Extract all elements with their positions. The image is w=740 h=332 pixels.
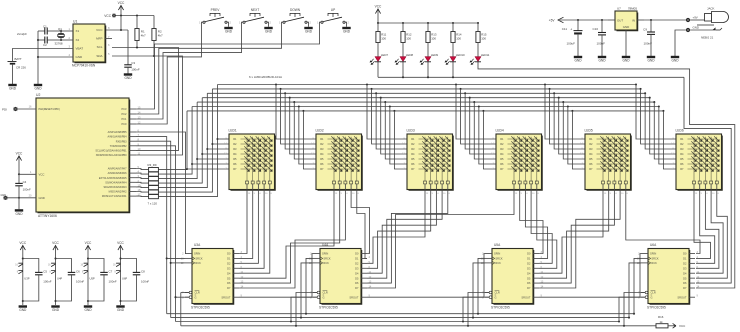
svg-text:VCC: VCC [104, 14, 111, 18]
svg-text:C1: C1 [43, 25, 47, 29]
LED matrix LED3 box [407, 134, 453, 190]
bus row R7 [187, 110, 663, 112]
wire SRCK tap U4A [305, 313, 307, 315]
svg-text:D3: D3 [527, 266, 531, 270]
+5V wire to regulator output [560, 19, 608, 21]
svg-text:100: 100 [381, 37, 386, 41]
svg-text:D0: D0 [683, 252, 687, 256]
svg-text:R3: R3 [320, 147, 324, 151]
wire R5 to LED1 pin [196, 158, 198, 160]
svg-text:D5: D5 [227, 276, 231, 280]
LED10 [452, 43, 454, 57]
wire row R6 tap to LED5 [567, 105, 569, 107]
svg-text:LED10: LED10 [456, 53, 465, 57]
regulator input wire [644, 19, 688, 21]
svg-text:R2: R2 [589, 142, 593, 146]
svg-text:OUT: OUT [617, 18, 623, 22]
svg-text:X1: X1 [76, 29, 80, 33]
shift register U5A box [492, 249, 533, 304]
IC U1 MCP79410 box [73, 24, 105, 62]
wire row R2 tap to LED2 [280, 88, 282, 90]
svg-text:R2: R2 [233, 142, 237, 146]
svg-text:R6: R6 [680, 162, 684, 166]
svg-text:LED3: LED3 [407, 129, 415, 133]
svg-text:D2: D2 [355, 261, 359, 265]
wire row R5 tap to LED6 [653, 101, 655, 103]
wire row R1 tap to LED2 [275, 83, 277, 85]
wire PA pin to RN [136, 191, 149, 194]
svg-text:R3_R9: R3_R9 [148, 163, 157, 167]
svg-text:IN: IN [632, 18, 635, 22]
svg-text:GND: GND [647, 59, 655, 63]
svg-text:SROUT: SROUT [221, 295, 230, 299]
svg-text:GND: GND [117, 308, 125, 312]
ground for U5P [84, 307, 92, 313]
ground for U6P [116, 307, 124, 313]
U2 pin PB4 [129, 136, 136, 138]
svg-text:U3A: U3A [194, 243, 201, 247]
wire SRCK tap U5A [477, 313, 479, 315]
svg-text:JACK: JACK [707, 7, 714, 11]
svg-text:NEB/J 21: NEB/J 21 [701, 36, 714, 40]
svg-text:VCC: VCC [96, 28, 103, 32]
pad +9V [686, 18, 690, 22]
U2 left pin UPDI [18, 108, 36, 110]
wire LED cathode [452, 62, 454, 78]
svg-text:STPIC6C595: STPIC6C595 [491, 305, 510, 309]
svg-text:STPIC6C595: STPIC6C595 [191, 305, 210, 309]
resistor R2 4k7 [153, 16, 155, 29]
push button UP [317, 8, 349, 25]
VCC for U5P [85, 241, 92, 253]
LED matrix LED5 box [585, 134, 631, 190]
capacitor C6 100nF [54, 257, 56, 259]
wire PA pin to RN [136, 169, 149, 170]
svg-text:GND: GND [124, 76, 132, 80]
svg-text:TXD/WO2/PB2: TXD/WO2/PB2 [110, 145, 127, 148]
resistor R13 100 [427, 22, 429, 24]
svg-text:D3: D3 [355, 266, 359, 270]
svg-text:2x12pF: 2x12pF [17, 32, 27, 36]
svg-text:R1: R1 [500, 137, 504, 141]
svg-text:R5: R5 [680, 157, 684, 161]
bus row R6 [192, 106, 659, 108]
VCC for U4P [52, 241, 59, 253]
svg-text:D7: D7 [527, 286, 531, 290]
svg-text:SRCK: SRCK [495, 257, 502, 261]
svg-text:VCC: VCC [375, 5, 382, 9]
svg-text:D4: D4 [355, 271, 359, 275]
net LED11 cathode to U6A D7 [478, 62, 735, 288]
svg-text:MFP: MFP [96, 37, 102, 41]
svg-text:VCC: VCC [19, 241, 26, 245]
push button DOWN [279, 8, 311, 25]
net SCL from U1 to MCU PB1 [112, 48, 179, 151]
svg-text:G: G [323, 295, 325, 299]
svg-text:100nF: 100nF [109, 279, 117, 283]
capacitor C11 100uF [577, 20, 579, 31]
wire row R4 tap to LED6 [649, 97, 651, 99]
svg-text:D0: D0 [527, 252, 531, 256]
net row R5 riser [158, 102, 197, 179]
svg-text:100nF: 100nF [23, 187, 31, 191]
svg-text:D5: D5 [355, 276, 359, 280]
svg-text:R7: R7 [500, 167, 504, 171]
svg-text:100: 100 [481, 37, 486, 41]
resistor network element 6 [149, 190, 159, 194]
wire row R3 tap to LED6 [644, 92, 646, 94]
wire R7 to LED1 pin [186, 168, 188, 170]
VCC symbol for indicator LEDs [375, 5, 382, 17]
svg-text:D3: D3 [227, 266, 231, 270]
svg-text:SS/WO4/AIN4/PA4: SS/WO4/AIN4/PA4 [105, 181, 127, 184]
wire PA pin to RN [136, 177, 149, 180]
bus /G bottom [176, 321, 620, 323]
U2 pin PB5 [129, 131, 136, 133]
+5V supply arrow [558, 17, 564, 23]
svg-text:D7: D7 [227, 286, 231, 290]
net row R7 riser [158, 111, 187, 170]
VCC for U6P [117, 241, 124, 253]
ground for U2 [15, 210, 23, 216]
VCC pad [112, 14, 116, 18]
wire row R5 tap to LED4 [473, 101, 475, 103]
ground for C11 [574, 57, 582, 63]
wire R3 to LED1 pin [206, 148, 208, 150]
svg-text:R3: R3 [589, 147, 593, 151]
net PREV to MCU [136, 22, 203, 124]
svg-text:R7: R7 [589, 167, 593, 171]
svg-text:R6: R6 [589, 162, 593, 166]
svg-text:R5: R5 [320, 157, 324, 161]
wire row R5 tap to LED5 [562, 101, 564, 103]
wires U5A outputs to LED4 columns [520, 198, 543, 254]
net SROUT U5A to SRIN U6A [539, 254, 641, 298]
svg-text:SDA: SDA [96, 54, 102, 58]
VCC arrow right for R16 [673, 323, 676, 328]
svg-text:CLR: CLR [323, 291, 328, 295]
LED7 [377, 43, 379, 57]
svg-text:7 x 120: 7 x 120 [148, 201, 158, 205]
svg-text:R4: R4 [233, 152, 237, 156]
ground for UP [342, 28, 350, 34]
svg-text:R4: R4 [320, 152, 324, 156]
svg-text:R3: R3 [680, 147, 684, 151]
net row R4 riser [158, 98, 202, 183]
svg-text:GND: GND [225, 30, 233, 34]
svg-text:ATTINY1606: ATTINY1606 [38, 214, 57, 218]
wire /CLR tap U5A [467, 325, 469, 327]
wire row R2 tap to LED3 [371, 88, 373, 90]
wires U4A outputs to LED3 columns [367, 198, 425, 264]
net DOWN to MCU [136, 22, 283, 114]
U2 VCC pin and C4 [16, 152, 23, 164]
svg-text:R1: R1 [320, 137, 324, 141]
ground for U4P [51, 307, 59, 313]
LED matrix LED4 box [496, 134, 542, 190]
resistor network element 1 [149, 168, 159, 172]
svg-text:GND: GND [343, 30, 351, 34]
svg-text:CLR: CLR [651, 291, 656, 295]
svg-text:R5: R5 [589, 157, 593, 161]
svg-text:PREV: PREV [211, 8, 221, 12]
svg-text:GND: GND [1, 194, 7, 197]
svg-text:C10: C10 [592, 27, 598, 31]
svg-text:C7: C7 [109, 270, 113, 274]
svg-text:GND: GND [39, 196, 45, 200]
svg-text:R4: R4 [680, 152, 684, 156]
wires U5A outputs to LED5 columns [539, 198, 603, 274]
svg-text:D6: D6 [355, 281, 359, 285]
svg-text:G: G [651, 295, 653, 299]
wire row R7 tap to LED3 [393, 110, 395, 112]
wire LED cathode [402, 62, 404, 78]
bus row R4 [202, 97, 649, 99]
wire row R7 tap to LED5 [571, 110, 573, 112]
svg-text:RCK: RCK [495, 261, 501, 265]
power pins U3P [15, 263, 29, 280]
svg-text:SRCK: SRCK [651, 257, 658, 261]
wire PA pin to RN [136, 195, 149, 198]
svg-text:STPIC6C595: STPIC6C595 [319, 305, 338, 309]
svg-text:SDA/WO3/AIN3/PA3: SDA/WO3/AIN3/PA3 [103, 186, 127, 189]
push button PREV [199, 8, 231, 25]
svg-text:RCK: RCK [195, 261, 201, 265]
svg-text:G: G [495, 295, 497, 299]
svg-text:R6: R6 [233, 162, 237, 166]
svg-text:D7: D7 [683, 286, 687, 290]
net SROUT U4A to SRIN U5A [367, 254, 485, 298]
resistor network element 7 [149, 195, 159, 199]
wire row R4 tap to LED3 [380, 97, 382, 99]
svg-text:C2: C2 [43, 43, 47, 47]
capacitor C9 100nF [650, 20, 652, 32]
svg-text:U4A: U4A [322, 243, 329, 247]
wire row R6 tap to LED3 [389, 105, 391, 107]
crystal Q1 32768 [61, 30, 73, 32]
svg-text:D2: D2 [527, 261, 531, 265]
svg-text:PC3: PC3 [121, 107, 127, 111]
LED matrix LED1 box [229, 134, 275, 190]
net row R6 riser [158, 107, 192, 175]
pad GND left [3, 196, 7, 200]
svg-text:U5P: U5P [90, 276, 95, 280]
U2 pin PA5 [129, 177, 136, 179]
svg-text:LED6: LED6 [676, 129, 684, 133]
LED matrix LED6 box [676, 134, 722, 190]
U2 pin PA1 [129, 195, 136, 197]
ground for C9 [647, 57, 655, 63]
wire /CLR tap U6A [623, 325, 625, 327]
capacitor C5 100nF [22, 257, 24, 259]
svg-text:LED11: LED11 [481, 53, 490, 57]
net SROUT U3A to SRIN U4A [239, 254, 313, 298]
wire RCK tap U4A [300, 317, 302, 319]
svg-text:GND: GND [671, 59, 679, 63]
ground for PREV [224, 28, 232, 34]
svg-text:VCC: VCC [117, 241, 124, 245]
svg-text:D0: D0 [355, 252, 359, 256]
net RCK MCU to bus [136, 141, 171, 317]
wire U4A D7 to LED4 column 1 [367, 198, 514, 289]
wire U1 GND pin to ground [38, 56, 73, 58]
U2 pin PC1 [129, 118, 136, 120]
svg-text:SCL(WO1)/SDA/AIN10/PB1: SCL(WO1)/SDA/AIN10/PB1 [95, 150, 127, 153]
svg-text:6 x LMD1203/BUD-101A: 6 x LMD1203/BUD-101A [249, 75, 282, 79]
svg-text:R7: R7 [680, 167, 684, 171]
wire row R5 tap to LED2 [293, 101, 295, 103]
svg-text:R1: R1 [589, 137, 593, 141]
svg-text:STPIC6C595: STPIC6C595 [647, 305, 666, 309]
resistor R14 100 [452, 22, 454, 24]
wire row R1 tap to LED6 [635, 83, 637, 85]
net colon LEDs common cathode to U6A D6 [378, 76, 684, 78]
svg-text:XDIR/WO0/SCL/AIN11/PB0: XDIR/WO0/SCL/AIN11/PB0 [96, 154, 127, 157]
bus /CLR bottom [181, 325, 652, 327]
shift register U4A box [320, 249, 361, 304]
wire row R4 tap to LED2 [289, 97, 291, 99]
svg-text:4k7: 4k7 [158, 34, 163, 38]
wire row R7 tap to LED2 [302, 110, 304, 112]
resistor R12 100 [402, 22, 404, 24]
battery BATT CR2025 [13, 49, 74, 62]
svg-text:RCK: RCK [651, 261, 657, 265]
capacitor C4 100nF [18, 174, 20, 183]
U2 pin PB2 [129, 145, 136, 147]
wire /G tap U6A [618, 320, 620, 322]
svg-text:UP: UP [331, 8, 335, 12]
svg-text:100nF: 100nF [643, 42, 652, 46]
svg-text:AINN1/AIN9/PB4: AINN1/AIN9/PB4 [107, 136, 127, 139]
svg-text:R1: R1 [411, 137, 415, 141]
svg-text:RXD/PB3: RXD/PB3 [116, 140, 127, 143]
svg-text:D0: D0 [227, 252, 231, 256]
svg-text:VCC: VCC [52, 241, 59, 245]
DC jack X2 [690, 7, 728, 40]
svg-text:D5: D5 [683, 276, 687, 280]
wire row R6 tap to LED4 [478, 105, 480, 107]
wire R4 to LED1 pin [201, 153, 203, 155]
svg-text:SRIN: SRIN [322, 252, 328, 256]
svg-text:R4: R4 [589, 152, 593, 156]
svg-text:U6P: U6P [122, 276, 127, 280]
wire row R6 tap to LED6 [658, 105, 660, 107]
svg-text:GND: GND [19, 308, 27, 312]
svg-text:U7: U7 [617, 6, 621, 10]
wire RCK tap U6A [628, 317, 630, 319]
ground for U3P [19, 307, 27, 313]
resistor network element 5 [149, 186, 159, 190]
resistor R11 100 [377, 23, 379, 32]
wire R1 to LED1 pin [216, 138, 218, 140]
capacitor C3 100nF [127, 30, 129, 65]
svg-text:GND: GND [15, 212, 23, 216]
svg-text:LED5: LED5 [585, 129, 593, 133]
svg-text:SRCK: SRCK [195, 257, 202, 261]
net SRCK MCU to bus [136, 137, 167, 314]
wire LED cathode [427, 62, 429, 78]
wire row R3 tap to LED3 [375, 92, 377, 94]
svg-text:GND: GND [76, 55, 84, 59]
wire R6 to LED1 pin [191, 163, 193, 165]
pad PDI [13, 107, 17, 111]
svg-text:LED7: LED7 [381, 53, 389, 57]
wire /CLR tap U4A [295, 325, 297, 327]
wire UP to ground [345, 22, 346, 27]
ground for C3 [124, 75, 132, 81]
svg-text:C3: C3 [131, 61, 135, 65]
svg-text:R5: R5 [500, 157, 504, 161]
LED8 [402, 43, 404, 57]
svg-text:+9V: +9V [693, 15, 698, 19]
svg-text:LED2: LED2 [316, 129, 324, 133]
svg-text:SCL: SCL [97, 45, 103, 49]
svg-text:PDI: PDI [2, 107, 7, 111]
svg-text:AINN0/AIN6/PA6: AINN0/AIN6/PA6 [108, 172, 127, 175]
shift register U3A box [192, 249, 233, 304]
svg-text:PA0(RESET/UPDI): PA0(RESET/UPDI) [39, 108, 60, 111]
wires U3A outputs to LED1 columns [239, 198, 247, 254]
ground for input [671, 57, 679, 63]
svg-text:R4: R4 [411, 152, 415, 156]
svg-text:G: G [195, 295, 197, 299]
svg-text:U4P: U4P [57, 276, 62, 280]
svg-text:R16: R16 [658, 315, 664, 319]
resistor network element 3 [149, 177, 159, 181]
capacitor C1 [38, 30, 45, 32]
svg-text:VCC: VCC [85, 241, 92, 245]
svg-text:GND: GND [9, 87, 17, 91]
svg-text:PC1: PC1 [121, 117, 127, 121]
svg-text:C11: C11 [562, 27, 568, 31]
wire SRCK tap U6A [633, 313, 635, 315]
wire row R4 tap to LED5 [558, 97, 560, 99]
microcontroller U2 ATTINY1606 box [36, 98, 129, 212]
resistor R1 4k7 [136, 16, 138, 29]
svg-text:LED9: LED9 [431, 53, 439, 57]
U1 MFP stub [105, 38, 112, 40]
wire R2 to LED1 pin [211, 143, 213, 145]
svg-text:C5: C5 [43, 270, 47, 274]
net SRIN MCU to U3A [136, 132, 186, 254]
svg-text:SRCK: SRCK [323, 257, 330, 261]
wire input ground [675, 30, 686, 56]
svg-text:EXTCLK/WO5/AIN5/PA5: EXTCLK/WO5/AIN5/PA5 [99, 177, 127, 180]
svg-text:R3: R3 [233, 147, 237, 151]
capacitor C10 100nF [601, 20, 603, 32]
svg-text:U6A: U6A [650, 243, 657, 247]
wire caps to ground [37, 31, 39, 84]
voltage regulator U7 78M05 [615, 11, 637, 30]
svg-text:C9: C9 [643, 28, 647, 32]
net row R1 riser [158, 85, 217, 197]
svg-text:SROUT: SROUT [521, 295, 530, 299]
net UP to MCU [136, 22, 321, 109]
svg-text:100nF: 100nF [76, 279, 84, 283]
ground for battery [8, 85, 16, 91]
svg-text:R2: R2 [680, 142, 684, 146]
power rail VCC to U1/R1/R2 [114, 15, 154, 17]
svg-text:100nF: 100nF [596, 42, 605, 46]
svg-text:D6: D6 [527, 281, 531, 285]
svg-text:GND: GND [84, 308, 92, 312]
svg-text:R5: R5 [411, 157, 415, 161]
svg-text:X2: X2 [76, 38, 80, 42]
wire DOWN to ground [307, 22, 308, 27]
wire U6A D0 to LED5 column 5 [626, 198, 700, 254]
svg-text:R7: R7 [233, 167, 237, 171]
svg-text:AINP0/AIN7/PA7: AINP0/AIN7/PA7 [108, 168, 127, 171]
